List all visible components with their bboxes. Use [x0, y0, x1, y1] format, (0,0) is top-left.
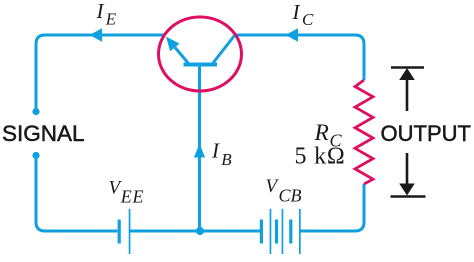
svg-text:I: I	[96, 0, 105, 23]
svg-text:SIGNAL: SIGNAL	[2, 121, 85, 146]
output dimension top bar	[391, 66, 424, 69]
svg-text:I: I	[211, 139, 220, 163]
transistor Q1 circle	[159, 17, 242, 91]
wire bottom-right (VCB to resistor)	[300, 184, 364, 231]
wire bottom-middle (VEE to VCB through base node)	[130, 230, 260, 233]
resistor RC zigzag	[355, 80, 373, 184]
svg-text:EE: EE	[120, 186, 144, 206]
output arrow up	[399, 68, 415, 111]
signal terminal dot upper	[32, 108, 39, 115]
transistor Q1 emitter arrowhead	[166, 37, 180, 52]
wire bottom-left (signal terminal to battery VEE)	[36, 156, 118, 231]
label RC	[314, 120, 343, 151]
svg-text:V: V	[266, 176, 280, 197]
svg-text:C: C	[302, 10, 314, 29]
label VEE	[109, 178, 145, 207]
label VCB	[266, 176, 302, 206]
label IE	[96, 0, 117, 28]
battery VCB plate 4 long	[282, 209, 284, 254]
battery VEE positive plate	[129, 209, 131, 254]
svg-text:I: I	[292, 0, 301, 24]
output arrow down	[399, 153, 415, 196]
current arrow IC	[286, 28, 299, 41]
svg-text:OUTPUT: OUTPUT	[381, 121, 471, 146]
output dimension bottom bar	[391, 195, 426, 198]
current arrow IE	[90, 28, 103, 41]
transistor Q1 collector line	[213, 36, 235, 64]
wire top-right (transistor collector to resistor top)	[235, 35, 365, 80]
svg-text:CB: CB	[279, 186, 302, 206]
label IC	[292, 0, 315, 29]
svg-text:R: R	[314, 120, 329, 146]
label IB	[211, 139, 232, 170]
wire base lead (transistor base to bottom junction)	[198, 65, 201, 231]
battery VEE negative plate	[118, 220, 121, 244]
battery VCB plate 1 short	[260, 220, 263, 244]
svg-text:B: B	[221, 150, 232, 169]
current arrow IB	[194, 144, 205, 158]
transistor Q1 base bar	[184, 63, 218, 67]
wire top-left (emitter wire from transistor to signal terminal)	[36, 35, 165, 108]
battery VCB plate 3 short	[275, 220, 278, 244]
transistor Q1 emitter line	[175, 48, 189, 64]
node base junction	[196, 227, 204, 235]
signal terminal dot lower	[32, 152, 39, 159]
battery VCB plate 6 long	[299, 209, 301, 254]
battery VCB plate 5 short	[289, 220, 292, 244]
svg-text:5 kΩ: 5 kΩ	[295, 144, 346, 170]
battery VCB plate 2 long	[270, 209, 272, 254]
svg-text:E: E	[105, 9, 117, 28]
